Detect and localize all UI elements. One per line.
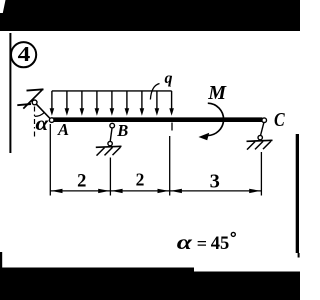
- svg-text:=: =: [197, 234, 207, 254]
- wall hatch stroke 1: [27, 89, 44, 90]
- ground hatch C2: [255, 141, 263, 149]
- lower pin C: [258, 135, 262, 139]
- lower pin B: [108, 141, 112, 145]
- ground hatch C1: [247, 142, 255, 150]
- svg-text:A: A: [57, 120, 69, 139]
- svg-text:q: q: [165, 70, 173, 87]
- extension line C: [260, 152, 262, 196]
- svg-text:4: 4: [18, 43, 31, 67]
- ground hatch C3: [263, 141, 271, 149]
- svg-text:3: 3: [210, 171, 220, 193]
- ground line at B: [96, 146, 122, 147]
- pin A: [49, 118, 54, 123]
- ground line at C: [247, 140, 273, 141]
- extension line B: [109, 158, 111, 196]
- problem number circle: [11, 42, 36, 67]
- svg-text:α: α: [36, 112, 50, 134]
- angle alpha arc: [35, 112, 45, 116]
- pin C: [262, 118, 267, 123]
- bottom scan border bar: [0, 268, 300, 300]
- ground hatch B3: [113, 147, 121, 155]
- q leader line: [150, 84, 159, 100]
- ground hatch B1: [97, 148, 105, 156]
- left page edge line: [9, 33, 11, 153]
- vertical dash-dot reference line: [34, 107, 36, 138]
- top scan border bar: [0, 0, 300, 31]
- svg-text:2: 2: [136, 170, 145, 190]
- distributed load top line: [52, 90, 172, 92]
- dim arrow right at B: [98, 189, 110, 193]
- load arrow 4: [95, 91, 100, 116]
- dimension line: [50, 190, 261, 192]
- support link at B: [110, 128, 112, 142]
- alpha value text: degree ring: [231, 232, 235, 236]
- svg-text:α: α: [177, 231, 193, 254]
- moment arc: [207, 103, 224, 135]
- svg-text:M: M: [207, 82, 227, 104]
- load arrow 1: [50, 91, 55, 116]
- load arrow 3: [80, 91, 85, 116]
- dim arrow right at load end: [158, 189, 170, 193]
- bottom-left scan tick: [0, 252, 2, 268]
- right page edge line: [296, 134, 299, 253]
- load arrow 9: [169, 91, 174, 116]
- svg-text:C: C: [274, 109, 286, 131]
- load arrow 7: [140, 91, 145, 116]
- load arrow 5: [110, 91, 115, 116]
- pin B: [110, 123, 115, 128]
- beam: [52, 117, 263, 122]
- extension tick under load end: [171, 123, 173, 131]
- load arrow 2: [65, 91, 70, 116]
- load arrow 8: [155, 91, 160, 116]
- wall pin: [32, 100, 37, 105]
- top-left white notch: [0, 0, 6, 13]
- svg-text:45: 45: [211, 234, 230, 254]
- right page edge lower notch: [298, 253, 300, 258]
- svg-text:B: B: [116, 121, 128, 140]
- svg-text:2: 2: [77, 172, 86, 192]
- dim arrow left at A: [51, 189, 63, 193]
- ground hatch B2: [105, 147, 113, 155]
- moment arrowhead: [199, 133, 210, 141]
- dim arrow left at B: [111, 189, 123, 193]
- wall hatch diagonal: [23, 90, 42, 109]
- extension line A: [49, 124, 51, 196]
- dim arrow left at load end: [170, 189, 182, 193]
- dim arrow right at C: [249, 189, 261, 193]
- support link at C: [261, 122, 264, 135]
- load arrow 6: [125, 91, 130, 116]
- extension line load end: [169, 136, 171, 196]
- wall hatch stroke 2: [17, 104, 31, 105]
- support rod at A: [36, 103, 52, 119]
